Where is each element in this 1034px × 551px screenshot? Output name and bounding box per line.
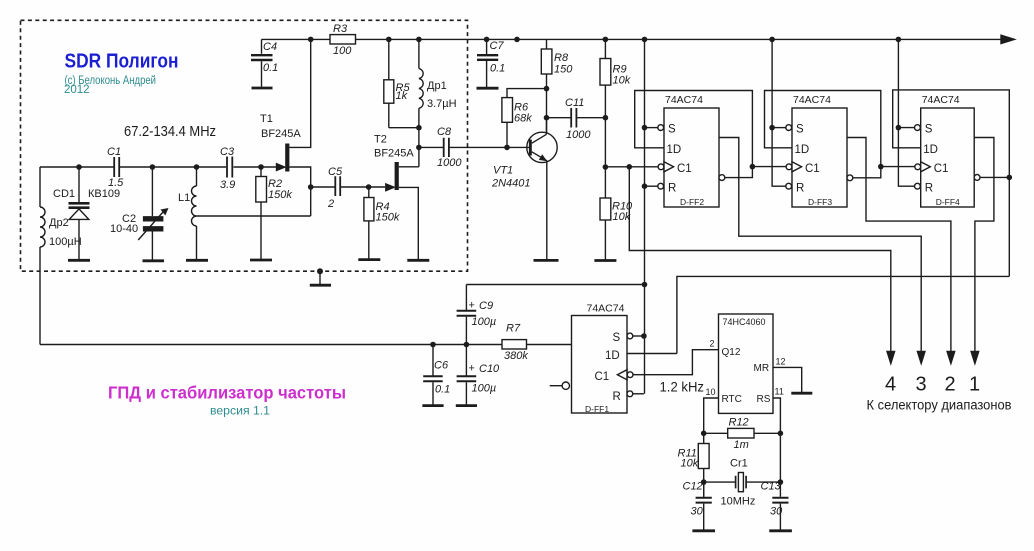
svg-text:C6: C6 bbox=[434, 360, 449, 372]
node dot FF2 S bbox=[642, 125, 648, 131]
node dot R5/Др1 bbox=[416, 125, 422, 131]
svg-text:D-FF1: D-FF1 bbox=[585, 404, 609, 414]
wire: oscillator rail y=167 bbox=[40, 166, 277, 168]
pin label 1D (FF3) bbox=[795, 144, 810, 156]
wire FF3 feedback loop Q̄ to 1D bbox=[765, 91, 881, 178]
svg-text:100µ: 100µ bbox=[472, 316, 497, 328]
wire T2 gate bbox=[369, 186, 385, 188]
wire C8 left bbox=[419, 146, 443, 148]
variable capacitor C2 bbox=[138, 167, 168, 260]
resistor R6 bbox=[502, 98, 513, 148]
node dot R2/gate bbox=[258, 164, 264, 170]
node dot FF2 R bbox=[642, 183, 648, 189]
label 3.7µH bbox=[427, 98, 457, 110]
label 2 (C5) bbox=[327, 198, 334, 210]
label 74HC4060 bbox=[723, 317, 766, 327]
wire FF2 S bbox=[645, 127, 658, 129]
wire FF4 Q output to band-1 route bbox=[974, 138, 994, 353]
label 74AC74 (FF4) bbox=[922, 94, 960, 106]
label 1.5 bbox=[108, 177, 124, 189]
wire T1 source down to C5 node bbox=[289, 167, 310, 216]
transistor VT1 bbox=[527, 118, 557, 260]
node dot FF1 S bbox=[641, 333, 647, 339]
label C3 bbox=[220, 146, 235, 158]
svg-text:R12: R12 bbox=[729, 417, 749, 429]
svg-text:380k: 380k bbox=[504, 350, 528, 362]
ground CD1 bbox=[68, 259, 90, 262]
wire FF3 Q output to band-2 route bbox=[847, 138, 951, 353]
wire T2 drain bbox=[399, 166, 419, 168]
node dot C7/rail bbox=[484, 37, 490, 43]
node dot rail spare bbox=[514, 37, 520, 43]
label Др2 bbox=[49, 217, 69, 229]
label 10-40 bbox=[110, 223, 138, 235]
ground C7 bbox=[477, 87, 499, 90]
ground R10 bbox=[594, 259, 616, 262]
copyright line bbox=[65, 75, 157, 87]
node dot rail/column772 bbox=[769, 37, 775, 43]
wire FF4 Q̄ bbox=[980, 176, 1009, 178]
wire R5 bottom to Др1 column bbox=[389, 127, 419, 129]
resistor R12 bbox=[728, 428, 754, 438]
pin label MR bbox=[754, 363, 770, 374]
label R11 bbox=[678, 448, 697, 460]
node dot R9/R10/C1 bbox=[603, 164, 609, 170]
svg-text:MR: MR bbox=[754, 363, 770, 374]
wire border ground stub bbox=[319, 271, 321, 284]
label C12 bbox=[683, 481, 703, 493]
IC U3 74HC4060 bbox=[719, 314, 774, 413]
crystal Cr1 bbox=[736, 473, 747, 492]
label 30 (C13) bbox=[770, 506, 783, 518]
label Cr1 bbox=[730, 458, 748, 470]
node dot FF3 Q̄ branch bbox=[878, 164, 884, 170]
wire S/R pull-up column FF2+FF1 bbox=[644, 39, 646, 393]
oscillator dashed enclosure bbox=[21, 20, 468, 271]
svg-text:R: R bbox=[613, 391, 621, 403]
label D-FF1 bbox=[585, 404, 609, 414]
svg-text:0.1: 0.1 bbox=[435, 384, 450, 396]
label R4 bbox=[376, 201, 390, 213]
label T1 bbox=[260, 113, 273, 125]
svg-text:30: 30 bbox=[691, 506, 704, 518]
wire FF1 C1 from 4060 Q12 bbox=[633, 350, 719, 375]
node dot FF4 Q̄ branch bbox=[1007, 175, 1013, 181]
label 74AC74 (FF2) bbox=[665, 94, 703, 106]
node dot clock branch bbox=[627, 164, 633, 170]
label C1 bbox=[107, 146, 121, 158]
label R10 bbox=[612, 201, 633, 213]
node dot C11/R9 bbox=[603, 115, 609, 121]
pin label C1 (FF2) bbox=[677, 163, 692, 175]
label C6 bbox=[434, 360, 449, 372]
svg-text:R7: R7 bbox=[506, 323, 521, 335]
capacitor C1 bbox=[114, 157, 119, 177]
ground C13 bbox=[769, 529, 792, 532]
label 380k (R7) bbox=[504, 350, 528, 362]
wire RTC column bbox=[704, 398, 719, 444]
label R5 bbox=[396, 82, 411, 94]
svg-text:12: 12 bbox=[776, 357, 786, 367]
label 1k (R5) bbox=[396, 90, 408, 102]
pin label 1D (FF1) bbox=[605, 350, 620, 362]
label D-FF4 bbox=[936, 197, 960, 207]
wire FF2 Q̄ to FF3 C1 bbox=[752, 166, 786, 168]
label D-FF3 bbox=[808, 197, 832, 207]
pin label RTC bbox=[722, 394, 742, 405]
node dot C2/rail bbox=[150, 164, 156, 170]
pin circle FF1 Q̄ stub bbox=[562, 382, 569, 389]
pin label S (FF2) bbox=[668, 124, 676, 136]
ground C2 bbox=[143, 259, 165, 262]
capacitor C11 bbox=[571, 108, 576, 128]
pin label S (FF1) bbox=[613, 332, 621, 344]
pin label R (FF4) bbox=[925, 183, 933, 195]
ground border bbox=[310, 284, 331, 287]
node dot on dashed border ground bbox=[317, 268, 323, 274]
flip-flop U1A 74AC74 D-FF2 bbox=[658, 108, 725, 207]
wire VFO clock to FF2 C1 bbox=[605, 166, 658, 168]
wire FF2 feedback loop Q̄ to 1D bbox=[635, 91, 753, 178]
resistor R11 bbox=[698, 444, 709, 497]
capacitor C6 bbox=[423, 345, 443, 405]
wire: left column from rail to bottom bbox=[39, 167, 41, 345]
node dot R6/base bbox=[504, 145, 510, 151]
label BF245A (T1) bbox=[261, 128, 301, 140]
node dot R8/R6 bbox=[544, 86, 550, 92]
svg-text:2: 2 bbox=[710, 339, 715, 349]
label R8 bbox=[554, 52, 569, 64]
bottom title ГПД и стабилизатор частоты bbox=[108, 383, 346, 403]
resistor R8 bbox=[541, 39, 552, 133]
node dot RTC/R12 bbox=[701, 431, 707, 437]
svg-text:C13: C13 bbox=[761, 481, 782, 493]
capacitor C7 bbox=[477, 39, 498, 87]
pin number 2 bbox=[710, 339, 715, 349]
transistor T2 gate arrow bbox=[386, 184, 394, 191]
svg-text:+: + bbox=[469, 300, 475, 312]
label Др1 bbox=[427, 80, 447, 92]
wire S/R pull-up column FF3 bbox=[772, 39, 786, 186]
pin number 12 bbox=[776, 357, 786, 367]
wire MR to ground bbox=[773, 367, 802, 392]
capacitor C4 bbox=[251, 39, 273, 86]
pin label C1 (FF3) bbox=[805, 163, 820, 175]
ground VT1 emitter bbox=[534, 259, 559, 262]
pin label R (FF1) bbox=[613, 391, 621, 403]
wire FF1 1D bbox=[627, 353, 677, 355]
label 10MHz bbox=[721, 496, 756, 508]
transistor T2 channel bar bbox=[395, 162, 399, 190]
label T2 bbox=[374, 134, 387, 146]
node dot C8/Др1 bbox=[416, 145, 422, 151]
wire bottom supply y=344.5 bbox=[40, 344, 572, 346]
svg-text:C10: C10 bbox=[479, 363, 500, 375]
label +C10 bbox=[469, 363, 501, 376]
wire T2 source to ground bbox=[399, 187, 419, 259]
ground MR bbox=[791, 392, 812, 395]
ground C10 bbox=[456, 404, 477, 407]
resistor R10 bbox=[600, 198, 611, 260]
label 30 (C12) bbox=[691, 506, 704, 518]
svg-text:100µ: 100µ bbox=[472, 383, 497, 395]
svg-text:C12: C12 bbox=[683, 481, 703, 493]
svg-text:74AC74: 74AC74 bbox=[587, 303, 625, 315]
inductor L1 bbox=[192, 167, 197, 260]
pin number 11 bbox=[775, 387, 784, 397]
node dot collector/C11 bbox=[544, 115, 550, 121]
label 150k (R4) bbox=[376, 212, 400, 224]
svg-text:RTC: RTC bbox=[722, 394, 742, 405]
wire FF1 R bbox=[633, 393, 644, 395]
ground C6 bbox=[422, 404, 443, 407]
capacitor C5 bbox=[335, 176, 340, 196]
wire FF2 R bbox=[645, 185, 658, 187]
svg-text:RS: RS bbox=[757, 394, 771, 405]
label R9 bbox=[613, 64, 627, 76]
ground T2 bbox=[407, 259, 429, 262]
wire L1 tap to T1 source bbox=[197, 215, 311, 217]
label 150k (R2) bbox=[268, 189, 292, 201]
node dot FF2 Q̄ branch bbox=[750, 164, 756, 170]
svg-text:1m: 1m bbox=[734, 439, 749, 451]
flip-flop U1B 74AC74 D-FF3 bbox=[786, 108, 853, 207]
wire FF4 Q̄ to D-FF1 1D bbox=[677, 276, 1009, 353]
node dot rail/column898 bbox=[896, 37, 902, 43]
label 10k (R11) bbox=[681, 458, 699, 470]
label 0.1 (C7) bbox=[490, 63, 505, 75]
pin label 1D (FF4) bbox=[923, 144, 938, 156]
node dot R11/Cr1 bbox=[701, 479, 707, 485]
node dot FF4 S bbox=[896, 125, 902, 131]
wire S/R pull-up column FF4 bbox=[898, 39, 914, 186]
label R3 bbox=[333, 23, 348, 35]
label BF245A (T2) bbox=[374, 148, 414, 160]
label 1000 (C8) bbox=[437, 157, 462, 169]
label CD1 bbox=[53, 188, 75, 200]
resistor R7 bbox=[502, 340, 527, 349]
ground L1 bbox=[186, 259, 208, 262]
version label bbox=[210, 404, 270, 418]
label C8 bbox=[437, 126, 452, 138]
label 3 bbox=[915, 374, 926, 396]
arrow to selector 2 bbox=[947, 352, 955, 364]
wire R12 link bbox=[704, 432, 781, 434]
svg-text:1D: 1D bbox=[605, 350, 620, 362]
label 100µ (C9) bbox=[472, 316, 497, 328]
inductor Dр2 bbox=[40, 207, 45, 247]
label 100µ (C10) bbox=[472, 383, 497, 395]
pin label C1 (FF4) bbox=[934, 163, 949, 175]
label 100 (R3) bbox=[333, 45, 352, 57]
capacitor C8 bbox=[444, 138, 449, 157]
label 3.9 bbox=[220, 179, 235, 191]
label C11 bbox=[565, 97, 584, 109]
label C13 bbox=[761, 481, 782, 493]
wire FF2 Q output to band-3 route bbox=[719, 138, 921, 353]
node dot T1 source/C5 bbox=[308, 184, 314, 190]
svg-text:C9: C9 bbox=[479, 300, 493, 312]
frequency range label bbox=[124, 124, 216, 140]
label R12 bbox=[729, 417, 749, 429]
label C4 bbox=[263, 41, 277, 53]
resistor R5 bbox=[384, 39, 394, 127]
arrow output top rail bbox=[1001, 35, 1015, 43]
wire crystal link bbox=[704, 481, 781, 483]
label КВ109 bbox=[88, 188, 120, 200]
svg-text:1.2 kHz: 1.2 kHz bbox=[660, 379, 705, 395]
ground R4 bbox=[358, 258, 380, 261]
label 0.1 (C4) bbox=[263, 62, 278, 74]
label 2 bbox=[944, 374, 955, 396]
pin label RS bbox=[757, 394, 771, 405]
capacitor C10 electrolytic bbox=[457, 345, 477, 405]
flip-flop U2A 74AC74 D-FF4 bbox=[915, 108, 980, 207]
node dot C5/R4 bbox=[366, 184, 372, 190]
label 150 (R8) bbox=[554, 64, 573, 76]
capacitor C12 bbox=[696, 482, 712, 530]
label 74AC74 (FF3) bbox=[793, 94, 831, 106]
node dot rail/column644 bbox=[642, 37, 648, 43]
svg-text:10MHz: 10MHz bbox=[721, 496, 756, 508]
node dot L1/rail bbox=[194, 164, 200, 170]
wire FF4 feedback loop Q̄ to 1D bbox=[893, 90, 1010, 277]
label 1 bbox=[969, 374, 980, 396]
label C2 bbox=[122, 213, 136, 225]
wire C11 left bbox=[547, 117, 571, 119]
node dot Др1/rail bbox=[416, 37, 422, 43]
wire FF1 inverted output stub bbox=[550, 385, 562, 387]
year 2012 bbox=[64, 84, 90, 96]
svg-text:Q12: Q12 bbox=[722, 347, 741, 358]
wire clock branch down to band-1 route bbox=[629, 167, 891, 353]
node dot FF3 S bbox=[769, 125, 775, 131]
label 100µH bbox=[49, 236, 82, 248]
label 4 bbox=[885, 374, 896, 396]
node dot C6 bbox=[430, 342, 436, 348]
ground C4 bbox=[252, 87, 273, 90]
node dot CD1/rail bbox=[76, 164, 82, 170]
node dot R9/rail bbox=[603, 37, 609, 43]
label 0.1 (C6) bbox=[435, 384, 450, 396]
label C7 bbox=[490, 40, 505, 52]
wire RS column bbox=[773, 398, 780, 482]
wire FF3 S bbox=[772, 127, 786, 129]
arrow to selector 3 bbox=[917, 352, 925, 364]
label 2N4401 bbox=[491, 178, 531, 190]
arrow to selector 1 bbox=[971, 352, 979, 364]
pin label S (FF3) bbox=[796, 124, 804, 136]
label 68k (R6) bbox=[514, 113, 532, 125]
label R6 bbox=[514, 102, 529, 114]
svg-text:11: 11 bbox=[775, 387, 784, 397]
label C5 bbox=[328, 166, 343, 178]
svg-text:10k: 10k bbox=[681, 458, 699, 470]
node dot Cr1/C13 bbox=[778, 479, 784, 485]
pin label C1 (FF1) bbox=[595, 371, 610, 383]
svg-text:S: S bbox=[613, 332, 621, 344]
label 10k (R10) bbox=[613, 211, 631, 223]
pin label 1D (FF2) bbox=[667, 144, 682, 156]
node dot R5/rail bbox=[386, 37, 392, 43]
label +C9 bbox=[469, 300, 494, 313]
svg-text:+: + bbox=[469, 363, 475, 375]
wire C8 to VT1 base bbox=[450, 146, 529, 148]
pin label R (FF2) bbox=[668, 183, 676, 195]
svg-text:C1: C1 bbox=[595, 371, 610, 383]
wire C5 link bbox=[311, 186, 369, 188]
wire: top supply rail bbox=[262, 38, 1002, 40]
label R7 bbox=[506, 323, 521, 335]
pin label R (FF3) bbox=[796, 183, 804, 195]
wire C9 top to column644 bbox=[466, 284, 644, 286]
resistor R2 bbox=[256, 167, 267, 259]
capacitor C13 bbox=[772, 482, 788, 530]
capacitor C3 bbox=[227, 157, 232, 178]
node dot RS/R12 bbox=[778, 431, 784, 437]
node dot C9/column644 bbox=[642, 282, 648, 288]
wire FF4 S bbox=[898, 127, 914, 129]
label 1.2 kHz bbox=[660, 379, 705, 395]
capacitor C9 electrolytic bbox=[457, 285, 477, 345]
label К селектору диапазонов bbox=[867, 398, 1012, 413]
svg-text:74HC4060: 74HC4060 bbox=[723, 317, 766, 327]
pin label Q12 bbox=[722, 347, 741, 358]
transistor T1 gate arrow bbox=[277, 164, 285, 171]
label L1 bbox=[178, 192, 190, 204]
resistor R4 bbox=[364, 187, 374, 259]
pin label S (FF4) bbox=[925, 124, 933, 136]
arrow to selector 4 bbox=[887, 352, 895, 364]
wire C11 right bbox=[577, 117, 605, 119]
wire FF1 S bbox=[633, 335, 644, 337]
label 1m (R12) bbox=[734, 439, 749, 451]
label D-FF2 bbox=[680, 197, 704, 207]
node dot C9/C10 bbox=[464, 342, 470, 348]
svg-text:10: 10 bbox=[706, 387, 716, 397]
resistor R3 bbox=[330, 35, 356, 44]
title SDR Полигон bbox=[65, 51, 179, 73]
svg-text:Cr1: Cr1 bbox=[730, 458, 748, 470]
label 1000 (C11) bbox=[566, 129, 591, 141]
ground R2 bbox=[250, 259, 272, 262]
resistor R9 bbox=[600, 39, 611, 198]
transistor T1 channel bar bbox=[285, 144, 289, 172]
wire R6 top bbox=[507, 89, 547, 98]
label R2 bbox=[268, 178, 282, 190]
label VT1 bbox=[493, 165, 513, 177]
svg-text:30: 30 bbox=[770, 506, 783, 518]
wire T1 drain to rail bbox=[289, 39, 310, 147]
label 10k (R9) bbox=[613, 75, 631, 87]
ground C12 bbox=[692, 529, 715, 532]
flip-flop U2B 74AC74 D-FF1 bbox=[572, 316, 633, 414]
node dot T1 drain/rail bbox=[308, 37, 314, 43]
pin number 10 bbox=[706, 387, 716, 397]
wire FF3 Q̄ to FF4 C1 bbox=[881, 166, 915, 168]
inductor Др1 bbox=[419, 39, 423, 166]
varactor CD1 bbox=[69, 167, 90, 260]
label 74AC74 (FF1) bbox=[587, 303, 625, 315]
